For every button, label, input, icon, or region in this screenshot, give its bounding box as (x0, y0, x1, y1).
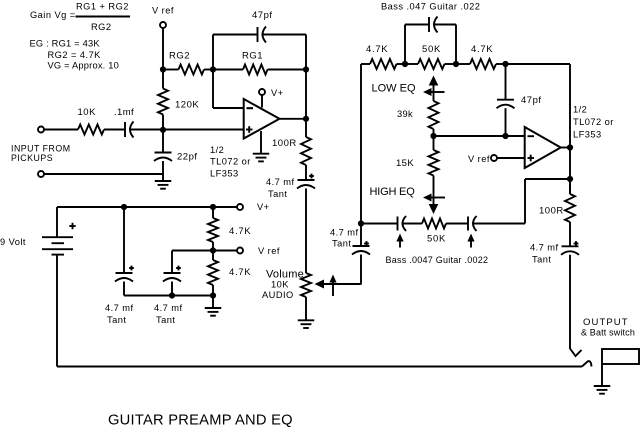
svg-text:V ref: V ref (468, 154, 490, 164)
wire (130, 129, 163, 131)
wire (44, 173, 163, 175)
wire (U2 output) (561, 147, 570, 149)
node input jack sleeve (38, 171, 44, 177)
capacitor C Bass .047 Guitar .022 (381, 2, 480, 65)
resistor R 4.7K (lower divider) (208, 251, 251, 296)
wire (506, 64, 571, 148)
resistor R 4.7K (EQ right) (456, 44, 506, 69)
svg-text:AUDIO: AUDIO (262, 290, 294, 300)
node RG1/RG2 junction (210, 66, 216, 72)
svg-text:VG = Approx. 10: VG = Approx. 10 (48, 61, 119, 71)
svg-text:RG2: RG2 (169, 51, 190, 62)
svg-text:TL072 or: TL072 or (210, 157, 251, 167)
svg-text:9 Volt: 9 Volt (0, 237, 26, 247)
svg-text:Tant: Tant (332, 239, 351, 249)
node junction (502, 61, 508, 67)
node input junction (160, 127, 166, 133)
node junction (210, 292, 216, 298)
text input label (11, 143, 71, 163)
svg-text:4.7K: 4.7K (471, 44, 493, 55)
svg-text:4.7 mf: 4.7 mf (105, 303, 134, 313)
svg-text:100R: 100R (539, 206, 564, 217)
svg-text:LF353: LF353 (210, 169, 239, 179)
wire (EQ input riser) (360, 64, 362, 224)
svg-text:47pf: 47pf (252, 10, 273, 21)
svg-text:HIGH EQ: HIGH EQ (370, 186, 416, 198)
potentiometer Volume 10K AUDIO (262, 269, 311, 301)
svg-text:RG1: RG1 (242, 51, 263, 62)
wire (U1 output) (280, 118, 307, 120)
svg-text:RG2: RG2 (91, 22, 111, 32)
ground (volume pot) (298, 297, 315, 328)
resistor RG2 (163, 51, 213, 75)
resistor RG1 (213, 51, 306, 75)
svg-text:INPUT FROM: INPUT FROM (11, 143, 71, 153)
wire (172, 250, 238, 252)
capacitor C 4.7mf Tant (EQ in) (330, 224, 370, 285)
svg-text:10K: 10K (271, 280, 289, 290)
svg-text:RG1 + RG2: RG1 + RG2 (76, 2, 129, 12)
node V+ (U1) (259, 88, 284, 108)
resistor R 120K (158, 70, 199, 130)
svg-text:120K: 120K (175, 100, 199, 111)
wiper arrows (HIGH EQ) (370, 176, 446, 215)
node V+ rail junction 2 (210, 204, 216, 210)
node junction (169, 292, 175, 298)
capacitor C 22pf (154, 130, 198, 175)
svg-text:100R: 100R (272, 138, 297, 149)
text output label (581, 317, 635, 338)
capacitor C 47pf (EQ) (497, 64, 542, 136)
potentiometer LOW EQ 50K (405, 44, 456, 69)
wire (163, 129, 244, 131)
wire (feedback to lower EQ) (473, 179, 570, 224)
svg-text:47pf: 47pf (521, 95, 542, 106)
svg-text:15K: 15K (396, 158, 414, 169)
svg-text:4.7 mf: 4.7 mf (154, 303, 183, 313)
capacitor C 4.7mf Tant (output) (530, 241, 579, 264)
resistor R 15K (396, 136, 439, 176)
svg-text:Gain Vg =: Gain Vg = (30, 10, 76, 20)
svg-text:LF353: LF353 (573, 130, 602, 140)
node feedback junction (567, 176, 573, 182)
node Vref terminal (237, 246, 280, 256)
svg-text:50K: 50K (422, 44, 441, 55)
potentiometer HIGH EQ 50K body (403, 219, 469, 245)
wire (569, 148, 571, 195)
wiper arrows (LOW EQ) (372, 76, 445, 102)
node V+ rail junction 1 (121, 204, 127, 210)
wiper arrow (volume) (329, 275, 336, 297)
node U1 output junction (303, 116, 309, 122)
ground (divider) (205, 296, 222, 316)
ground (U1) (253, 131, 270, 161)
wire (124, 295, 213, 297)
output hook (jack tip) (570, 349, 582, 357)
capacitor C .1mf (114, 107, 134, 138)
wire (212, 35, 214, 70)
resistor R 100R (U2 out) (539, 179, 575, 246)
svg-text:22pf: 22pf (177, 152, 198, 163)
wire (434, 135, 525, 137)
svg-text:GUITAR PREAMP AND EQ: GUITAR PREAMP AND EQ (108, 413, 293, 429)
node V ref (U2 +input) (468, 154, 525, 164)
wire (output lead) (569, 255, 571, 349)
svg-text:Tant: Tant (156, 315, 175, 325)
svg-text:Bass .047 Guitar .022: Bass .047 Guitar .022 (381, 2, 480, 12)
svg-text:Bass .0047 Guitar .0022: Bass .0047 Guitar .0022 (386, 255, 489, 265)
resistor R 39k (397, 101, 439, 136)
svg-text:4.7K: 4.7K (229, 267, 251, 278)
svg-text:OUTPUT: OUTPUT (583, 317, 629, 328)
example gain values text (30, 39, 119, 71)
ground (jack) (594, 364, 611, 394)
svg-text:TL072 or: TL072 or (573, 117, 614, 127)
capacitor C Guitar .0022 (right) (468, 216, 477, 231)
svg-text:4.7 mf: 4.7 mf (266, 177, 295, 187)
wiper contact arrow (right) (467, 234, 474, 248)
wire (305, 189, 307, 274)
node Vref divider junction (210, 247, 216, 253)
wire (305, 70, 307, 120)
node V ref (input stage) (152, 6, 174, 29)
resistor R 4.7K (EQ left) (361, 44, 405, 69)
svg-text:V ref: V ref (152, 6, 174, 16)
svg-text:4.7 mf: 4.7 mf (330, 228, 359, 238)
op-amp U2 1/2 TL072 (525, 105, 614, 169)
node junction (402, 61, 408, 67)
op-amp U1 1/2 TL072 (210, 99, 280, 179)
node junction (453, 61, 459, 67)
svg-text:Tant: Tant (532, 255, 551, 265)
output jack & battery switch box (602, 349, 639, 364)
svg-text:10K: 10K (78, 107, 97, 118)
node U2 output junction (567, 144, 573, 150)
text title (108, 413, 293, 429)
resistor R 100R (U1 out) (272, 119, 311, 180)
svg-text:V+: V+ (257, 202, 270, 212)
svg-text:V ref: V ref (258, 246, 280, 256)
svg-text:1/2: 1/2 (210, 145, 224, 155)
battery 9 Volt (0, 207, 76, 255)
node EQ input junction (358, 220, 364, 226)
wire (inverting input) (213, 70, 244, 109)
svg-text:LOW EQ: LOW EQ (372, 83, 416, 95)
wire (battery negative) (57, 255, 582, 367)
ground hook (jack sleeve) (582, 361, 592, 366)
svg-text:EG : RG1 = 43K: EG : RG1 = 43K (30, 39, 101, 49)
capacitor C 4.7mf Tant (V+ bypass) (105, 207, 134, 325)
capacitor C 4.7mf Tant (U1 out) (266, 174, 315, 199)
wiper contact arrow (left) (396, 234, 403, 248)
node RG2 left junction (160, 66, 166, 72)
svg-text:RG2 = 4.7K: RG2 = 4.7K (48, 50, 102, 60)
resistor R 4.7K (upper divider) (208, 207, 251, 251)
svg-text:4.7K: 4.7K (229, 226, 251, 237)
node input jack tip (38, 127, 44, 133)
wire (V+ rail) (57, 206, 238, 208)
svg-text:Tant: Tant (107, 315, 126, 325)
svg-text:V+: V+ (271, 88, 284, 98)
svg-text:4.7K: 4.7K (366, 44, 388, 55)
svg-text:Tant: Tant (268, 189, 287, 199)
svg-text:PICKUPS: PICKUPS (11, 153, 53, 163)
svg-text:.1mf: .1mf (114, 107, 134, 118)
resistor R 10K input (44, 107, 125, 135)
ground (input) (155, 174, 172, 189)
gain formula text (30, 2, 130, 33)
svg-text:4.7 mf: 4.7 mf (530, 243, 559, 253)
capacitor C 4.7mf Tant (Vref bypass) (154, 251, 183, 326)
node V+ terminal (237, 202, 270, 212)
wire (305, 35, 307, 70)
capacitor C 47pf (feedback) (213, 10, 306, 43)
wire (volume wiper) (315, 280, 362, 289)
svg-text:1/2: 1/2 (573, 105, 587, 115)
wire (162, 28, 164, 70)
node RG1 right junction (303, 66, 309, 72)
node junction (430, 133, 436, 139)
svg-text:& Batt switch: & Batt switch (581, 328, 635, 338)
capacitor C Bass .0047 (left) (361, 216, 488, 265)
svg-text:39k: 39k (397, 109, 413, 119)
svg-text:50K: 50K (427, 234, 446, 245)
node junction (502, 133, 508, 139)
